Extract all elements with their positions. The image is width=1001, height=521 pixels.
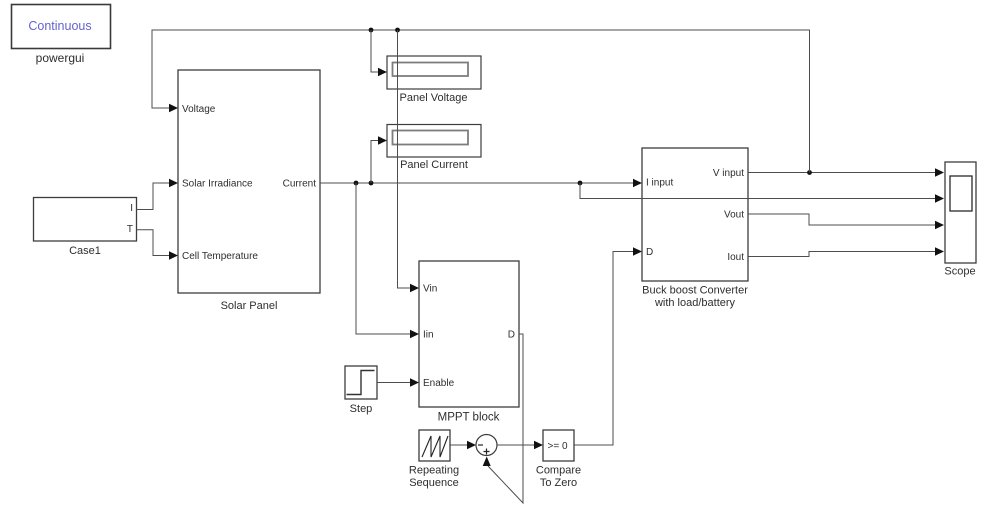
svg-text:Sequence: Sequence [409,477,459,489]
arrowhead sum bottom [483,457,491,467]
svg-text:Panel Current: Panel Current [400,159,468,171]
source Case1 [34,198,137,258]
arrowhead MPPT Vin [410,284,419,292]
powergui U_powergui [12,5,111,66]
junction at 809.5,172.5 [807,170,812,175]
svg-text:Repeating: Repeating [409,465,459,477]
display Panel Voltage [387,56,481,104]
wire drop to MPPT Vin [398,30,411,288]
svg-text:powergui: powergui [36,51,85,65]
wire Iout to Scope in4 [748,252,936,257]
comparator Compare To Zero [536,430,581,489]
arrowhead Panel Current [378,136,387,144]
svg-text:I: I [130,203,133,214]
wire Repeating Sequence to sum [450,444,468,446]
subsystem MPPT block [419,261,519,424]
arrowhead Scope in2 [935,194,944,202]
junction at 580,183 [578,181,583,186]
svg-text:Continuous: Continuous [28,19,91,33]
arrowhead sum left [467,441,476,449]
svg-text:MPPT block: MPPT block [438,412,500,424]
arrowhead MPPT Iin [410,330,419,338]
svg-text:D: D [508,330,515,341]
subsystem Buck boost Converter with load/battery [642,148,748,309]
wire Case1 I to Solar Irradiance [137,183,170,210]
wire Case1 T to Cell Temperature [137,230,170,256]
svg-text:Vin: Vin [423,284,437,295]
wire drop to Panel Voltage display [371,30,379,72]
arrowhead Panel Voltage [378,68,387,76]
svg-text:Step: Step [350,403,373,415]
junction at 371,183 [369,181,374,186]
subsystem Solar Panel [178,70,320,312]
arrowhead Scope in1 [935,168,944,176]
svg-text:I input: I input [646,178,673,189]
wire V-input feedback to Scope in1 [748,172,936,174]
scope Scope [944,162,976,278]
svg-text:Case1: Case1 [69,245,101,257]
arrowhead Compare To Zero [534,441,543,449]
wire Vout to Scope in3 [748,214,936,225]
junction at 356,183 [354,181,359,186]
arrowhead Solar Panel Voltage [169,104,178,112]
svg-text:To Zero: To Zero [540,477,577,489]
svg-text:Panel Voltage: Panel Voltage [400,92,468,104]
wire current to Scope in2 [580,183,936,199]
svg-text:Buck boost Converter: Buck boost Converter [642,285,748,297]
arrowhead MPPT Enable [410,378,419,386]
wire sum to Compare To Zero [497,444,535,446]
wire Compare To Zero to Buck D [574,252,634,446]
arrowhead Scope in3 [935,221,944,229]
svg-text:Cell Temperature: Cell Temperature [182,251,258,262]
wire Step to MPPT Enable [377,382,411,384]
arrowhead Buck I input [633,179,642,187]
svg-text:Iout: Iout [727,252,744,263]
svg-text:Iin: Iin [423,330,434,341]
svg-text:D: D [646,247,653,258]
svg-text:Solar Panel: Solar Panel [221,300,278,312]
svg-text:Current: Current [283,179,317,190]
svg-text:Enable: Enable [423,378,455,389]
svg-text:>= 0: >= 0 [547,441,567,452]
source Repeating Sequence [409,430,459,489]
svg-text:V input: V input [713,168,744,179]
svg-text:Compare: Compare [536,465,581,477]
svg-text:with load/battery: with load/battery [654,297,736,309]
svg-text:Vout: Vout [724,210,744,221]
arrowhead Buck D [633,247,642,255]
arrowhead Solar Irradiance [169,179,178,187]
wire Current from Solar Panel to I input [320,182,634,184]
arrowhead Scope in4 [935,247,944,255]
svg-text:Voltage: Voltage [182,104,216,115]
wire feedback riser [152,30,810,173]
svg-text:T: T [127,224,133,235]
sum block S1 [476,435,497,456]
wire drop to MPPT Iin [356,183,411,334]
display Panel Current [387,125,481,172]
junction at 371,30 [369,28,374,33]
arrowhead Cell Temperature [169,251,178,259]
wire rise to Panel Current display [371,141,379,184]
wire MPPT D to sum minus-loop [488,334,523,503]
svg-text:Solar Irradiance: Solar Irradiance [182,179,253,190]
svg-text:Scope: Scope [944,266,975,278]
source Step [345,366,377,415]
junction at 397.5,30 [395,28,400,33]
